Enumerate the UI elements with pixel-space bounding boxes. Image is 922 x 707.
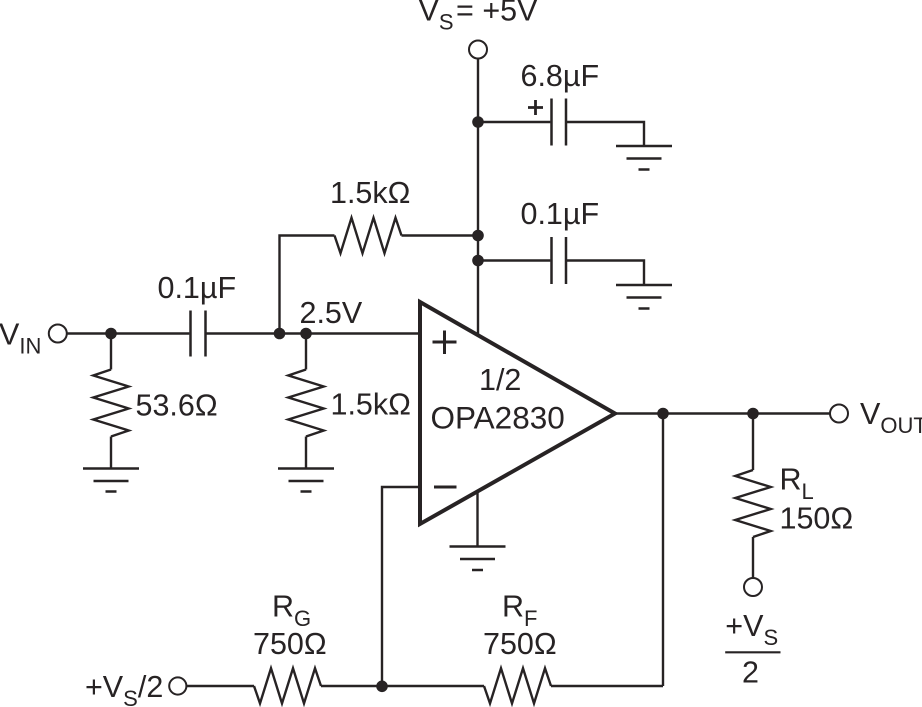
svg-text:750Ω: 750Ω — [483, 627, 557, 661]
resistor R3 53.6 lead top — [110, 334, 112, 370]
capacitor C3 0.1uF input plates — [191, 311, 206, 357]
capacitor C1 6.8uF plates — [552, 99, 567, 146]
node +VS/2 input terminal circle — [169, 677, 186, 694]
ground G1 — [616, 146, 672, 170]
svg-text:0.1µF: 0.1µF — [521, 197, 600, 231]
node VS terminal circle — [469, 41, 487, 59]
resistor R5 RL lead top — [752, 414, 754, 471]
wire 6.8uF branch left — [478, 121, 550, 123]
wire bottom right — [551, 685, 663, 687]
ground G5 — [450, 547, 506, 571]
wire 0.1uF branch right — [567, 261, 644, 286]
resistor R5 RL zigzag — [735, 470, 770, 537]
node input-R3 junction — [105, 328, 117, 340]
svg-text:2.5V: 2.5V — [300, 296, 363, 330]
svg-text:53.6Ω: 53.6Ω — [136, 389, 218, 423]
svg-text:6.8µF: 6.8µF — [521, 59, 600, 93]
capacitor C2 0.1uF plates — [552, 237, 567, 284]
node output junction — [657, 408, 669, 420]
wire feedback drop from output — [662, 414, 664, 687]
node rail-R2 junction — [472, 230, 484, 242]
wire top resistor right — [402, 234, 479, 236]
op-amp plus sign — [433, 331, 457, 355]
svg-text:0.1µF: 0.1µF — [158, 271, 237, 305]
node input-R4 junction 2.5V — [300, 328, 312, 340]
resistor R7 RF zigzag — [484, 668, 551, 703]
svg-text:2: 2 — [742, 656, 759, 690]
plus polarity mark C1 — [528, 100, 543, 115]
wire 6.8uF branch right — [567, 122, 644, 146]
op-amp minus sign — [434, 486, 457, 489]
op-amp U1 triangle — [420, 302, 615, 524]
resistor R4 lead bottom — [305, 437, 307, 469]
svg-text:VIN: VIN — [0, 318, 41, 359]
node input-R2 junction — [274, 328, 286, 340]
wire 0.1uF branch left — [478, 259, 550, 261]
node +VS/2 load terminal circle — [744, 578, 762, 596]
node VOUT terminal circle — [830, 405, 848, 423]
resistor R4 1.5k zigzag — [288, 370, 323, 437]
wire input right to op-amp — [207, 332, 421, 334]
wire bottom left — [187, 685, 254, 687]
svg-text:1.5kΩ: 1.5kΩ — [331, 388, 411, 422]
svg-text:1.5kΩ: 1.5kΩ — [330, 176, 410, 210]
svg-text:RF: RF — [502, 590, 537, 632]
wire op-amp bottom pin — [476, 492, 478, 547]
wire output — [615, 412, 830, 414]
node VIN terminal circle — [49, 325, 67, 343]
node feedback junction — [376, 681, 388, 693]
svg-text:+VS: +VS — [725, 609, 778, 650]
resistor R4 1.5k lead top — [305, 334, 307, 370]
svg-text:VS= +5V: VS= +5V — [419, 0, 539, 35]
ground G3 — [83, 469, 139, 492]
svg-text:+VS/2: +VS/2 — [85, 670, 163, 707]
svg-text:150Ω: 150Ω — [780, 502, 854, 536]
resistor R2 1.5k top zigzag — [335, 218, 402, 253]
svg-text:VOUT: VOUT — [860, 397, 922, 438]
fraction bar — [725, 651, 780, 653]
ground G2 — [616, 285, 672, 309]
resistor R3 53.6 zigzag — [93, 370, 128, 437]
wire input left — [67, 332, 190, 334]
wire bottom middle — [321, 685, 484, 687]
resistor R3 lead bottom — [110, 437, 112, 469]
svg-text:OPA2830: OPA2830 — [431, 400, 565, 436]
wire top resistor left + drop to input node — [280, 236, 335, 334]
resistor R5 RL lead bottom — [752, 537, 754, 578]
wire inverting input feedback — [382, 487, 420, 686]
ground G4 — [278, 469, 334, 492]
svg-text:1/2: 1/2 — [479, 363, 521, 397]
node RL junction — [747, 408, 759, 420]
svg-text:RG: RG — [272, 590, 311, 632]
svg-text:RL: RL — [780, 463, 814, 505]
node rail-0.1uF junction — [472, 255, 484, 267]
svg-text:750Ω: 750Ω — [253, 627, 327, 661]
node rail-6.8uF junction — [472, 116, 484, 128]
resistor R6 RG zigzag — [254, 668, 321, 703]
wire VS rail vertical — [477, 59, 479, 337]
